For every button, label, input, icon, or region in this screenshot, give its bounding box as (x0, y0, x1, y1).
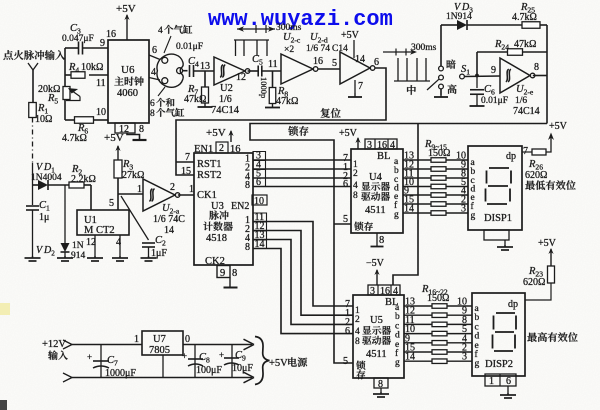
resistor R13 (403, 194, 468, 196)
svg-text:6: 6 (152, 45, 157, 56)
svg-text:+5V: +5V (104, 132, 124, 144)
svg-text:14: 14 (164, 225, 174, 236)
DISP1 bottom tab (484, 230, 509, 240)
wire to U2-a (118, 193, 143, 195)
svg-text:620Ω: 620Ω (523, 277, 545, 288)
wire Q2 digit1 (253, 168, 351, 170)
resistor R20 (404, 342, 472, 344)
svg-text:8: 8 (245, 242, 250, 253)
svg-text:4: 4 (353, 181, 358, 191)
resistor R21 (404, 351, 472, 353)
svg-text:1/6 74C: 1/6 74C (153, 214, 185, 225)
svg-text:+5V: +5V (538, 238, 557, 249)
svg-text:8: 8 (353, 191, 358, 201)
wire right rail (546, 25, 548, 124)
svg-text:5: 5 (109, 198, 114, 209)
svg-text:RST2: RST2 (197, 170, 222, 181)
svg-text:1N: 1N (72, 241, 84, 251)
svg-text:10: 10 (254, 196, 264, 207)
wire Q4 digit1 (253, 186, 351, 188)
svg-text:14: 14 (355, 54, 365, 65)
svg-text:U7: U7 (153, 334, 166, 345)
svg-text:3: 3 (461, 204, 466, 215)
capacitor C2 1uF (121, 196, 149, 240)
counter U3 4518 (194, 153, 253, 265)
svg-text:+5V: +5V (339, 128, 358, 139)
svg-text:620Ω: 620Ω (525, 170, 547, 181)
wire Q1 digit1 (253, 159, 351, 161)
svg-text:+5V: +5V (269, 358, 288, 369)
op-amp U2 1/6 74C14 (214, 57, 245, 85)
svg-text:U5: U5 (370, 315, 383, 326)
resistor R17 (404, 314, 472, 316)
svg-text:5: 5 (343, 214, 348, 225)
svg-text:7: 7 (185, 152, 190, 163)
switch S1 dim/mid/high (440, 25, 442, 66)
svg-text:dp: dp (506, 151, 516, 162)
svg-text:dp: dp (508, 299, 518, 310)
svg-text:4: 4 (355, 327, 360, 337)
svg-text:8: 8 (379, 235, 384, 246)
svg-text:4518: 4518 (206, 233, 227, 244)
paper smudge (0, 303, 10, 315)
svg-text:11: 11 (96, 78, 106, 89)
svg-text:U6: U6 (121, 64, 135, 76)
svg-text:9: 9 (220, 268, 225, 279)
svg-text:27kΩ: 27kΩ (122, 170, 144, 181)
svg-text:5: 5 (332, 58, 337, 69)
resistor R12 (403, 186, 468, 188)
resistor R1 10 ohm (29, 103, 37, 118)
svg-text:CK1: CK1 (197, 190, 217, 201)
resistor R14 (403, 203, 468, 205)
resistor R16 (404, 305, 472, 307)
svg-text:4060: 4060 (117, 88, 138, 99)
svg-text:1: 1 (489, 376, 494, 387)
annotation 300ms right (383, 51, 414, 53)
svg-text:15: 15 (181, 166, 191, 177)
svg-text:4: 4 (151, 67, 156, 78)
display driver U5 4511 (353, 295, 404, 378)
svg-text:9: 9 (100, 38, 105, 49)
svg-text:7805: 7805 (149, 345, 170, 356)
regulator U7 7805 (142, 331, 183, 355)
svg-text:2: 2 (355, 315, 360, 325)
svg-text:+5V: +5V (116, 3, 136, 15)
svg-text:+5V: +5V (549, 121, 568, 132)
svg-text:10μF: 10μF (232, 363, 253, 374)
svg-text:DISP2: DISP2 (485, 359, 513, 370)
wire Q5 digit2 (253, 222, 353, 307)
wire Q3 digit1 (253, 177, 351, 179)
svg-text:8: 8 (355, 337, 360, 347)
resistor R6 4.7k (65, 119, 74, 121)
svg-text:6: 6 (345, 326, 350, 337)
svg-text:1μF: 1μF (151, 248, 167, 259)
display DISP1 (468, 146, 522, 230)
U4 top pin boxes 3 16 4 (365, 139, 397, 149)
svg-text:14: 14 (255, 239, 265, 250)
svg-text:10: 10 (96, 107, 106, 118)
display DISP2 (472, 293, 525, 376)
capacitor C7 1000uF (100, 345, 102, 378)
svg-text:U2: U2 (220, 83, 233, 94)
ground U6 (127, 133, 140, 140)
seven segment digit DISP1 (486, 168, 512, 204)
pulse train 300ms top (234, 39, 269, 41)
svg-text:1μ: 1μ (39, 212, 49, 223)
svg-text:M CT2: M CT2 (84, 225, 115, 236)
bottom rail (63, 373, 72, 382)
reset label (321, 108, 341, 118)
svg-text:10Ω: 10Ω (35, 114, 52, 125)
svg-text:g: g (475, 359, 480, 369)
svg-text:6: 6 (343, 179, 348, 190)
svg-text:3: 3 (462, 352, 467, 363)
most significant digit label (527, 332, 577, 342)
svg-text:+5V: +5V (206, 127, 226, 139)
svg-text:U3: U3 (211, 201, 224, 212)
capacitor C9 10uF (231, 345, 233, 378)
svg-text:74C14: 74C14 (211, 105, 240, 116)
svg-text:−5V: −5V (366, 258, 385, 269)
svg-text:4: 4 (158, 26, 163, 36)
svg-text:1: 1 (137, 184, 142, 195)
svg-text:8: 8 (245, 180, 250, 191)
svg-text:47kΩ: 47kΩ (276, 96, 298, 107)
svg-text:1N4004: 1N4004 (31, 173, 62, 183)
U5 top pin boxes 3 16 4 (368, 285, 400, 295)
svg-text:DISP1: DISP1 (484, 213, 512, 224)
svg-text:6: 6 (374, 57, 379, 68)
display driver U4 4511 (351, 149, 403, 233)
svg-text:8: 8 (534, 62, 539, 73)
svg-text:14: 14 (404, 204, 414, 215)
least significant digit label (525, 180, 575, 190)
ignition pulse input label (3, 50, 65, 60)
label 6 and 8 cylinders (158, 87, 165, 96)
resistor R19 (404, 333, 472, 335)
svg-text:74C14: 74C14 (513, 106, 540, 117)
DISP2 bottom tab (485, 374, 516, 386)
svg-text:150Ω: 150Ω (427, 293, 449, 304)
U5 pin8 box (374, 378, 388, 388)
CK2 pin box 9 8 (217, 266, 230, 278)
svg-text:0: 0 (185, 334, 190, 345)
svg-text:RST1: RST1 (197, 159, 222, 170)
capacitor C5 1000p (248, 70, 258, 72)
svg-text:8: 8 (232, 268, 237, 279)
resistor R9 (403, 159, 468, 161)
svg-text:4.7kΩ: 4.7kΩ (62, 133, 87, 144)
latch label (288, 126, 308, 136)
svg-text:EN2: EN2 (231, 201, 249, 212)
svg-text:1/6: 1/6 (219, 94, 232, 105)
svg-text:1: 1 (134, 334, 139, 345)
capacitor C1 1u (32, 185, 34, 205)
pulse train mid (394, 80, 430, 82)
ground CK2 (229, 278, 231, 288)
input arrow top (63, 340, 72, 349)
svg-text:6: 6 (506, 376, 511, 387)
svg-text:11: 11 (268, 59, 278, 70)
svg-text:47kΩ: 47kΩ (184, 94, 206, 105)
resistor R7 47k (204, 71, 206, 87)
svg-text:6: 6 (150, 99, 155, 109)
resistor R10 (403, 168, 468, 170)
EN2 pin box (252, 195, 267, 205)
svg-text:+: + (87, 352, 92, 362)
svg-text:U4: U4 (369, 172, 383, 183)
resistor R11 (403, 177, 468, 179)
resistor R23 620 (548, 266, 555, 283)
input terminal (28, 63, 38, 70)
op-amp U2-e (500, 58, 530, 93)
U7 ground pin (162, 355, 164, 378)
measure arrow 300ms (237, 28, 275, 30)
wire dashed to VD1 (32, 118, 34, 164)
op-amp U6 main clock 4060 (108, 40, 149, 123)
svg-text:2: 2 (170, 182, 175, 193)
svg-text:1/6 74: 1/6 74 (306, 44, 330, 54)
svg-text:9: 9 (491, 65, 496, 76)
svg-text:2: 2 (353, 169, 358, 179)
svg-text:4511: 4511 (365, 205, 386, 216)
brace (255, 337, 270, 385)
svg-text:8: 8 (139, 124, 144, 135)
wire Q8 digit2 (253, 249, 353, 334)
svg-text:1N914: 1N914 (446, 12, 472, 22)
svg-text:+5V: +5V (341, 30, 360, 41)
svg-text:+12V: +12V (42, 339, 66, 350)
svg-text:8: 8 (150, 109, 155, 119)
seven segment digit DISP2 (493, 313, 517, 351)
wire rail to U5 pin4 (393, 124, 418, 286)
svg-text:16: 16 (106, 29, 116, 40)
svg-text:14: 14 (405, 352, 415, 363)
svg-text:1000μF: 1000μF (105, 368, 136, 379)
svg-text:g: g (471, 211, 476, 221)
wire Q6 digit2 (253, 231, 353, 316)
svg-text:914: 914 (71, 251, 86, 261)
svg-text:0.01μF: 0.01μF (176, 42, 203, 52)
resistor R15 (403, 212, 468, 214)
svg-text:+: + (182, 351, 187, 361)
svg-text:6: 6 (256, 177, 261, 188)
resistor R22 (404, 360, 472, 362)
selector switch (149, 55, 160, 60)
wire Q7 digit2 (253, 240, 353, 325)
svg-text:100μF: 100μF (196, 365, 222, 376)
wire left rail (64, 48, 66, 120)
latch wire long (250, 124, 547, 364)
svg-text:300ms: 300ms (411, 43, 437, 53)
capacitor C8 100uF (194, 345, 196, 378)
svg-text:13: 13 (200, 61, 210, 72)
svg-text:BL: BL (377, 151, 390, 162)
optocoupler U1 MCT2 (77, 210, 129, 235)
resistor R18 (404, 323, 472, 325)
svg-text:4511: 4511 (366, 349, 387, 360)
U6 pin 12 8 box (115, 123, 135, 133)
capacitor C6 0.01uF (476, 76, 478, 88)
svg-text:g: g (394, 210, 399, 220)
diode VD2 1N914 (64, 185, 66, 243)
reset wire from U2-d (176, 68, 386, 175)
svg-text:×2: ×2 (284, 45, 294, 55)
svg-text:1000p: 1000p (259, 77, 269, 98)
svg-text:1/6: 1/6 (515, 96, 527, 106)
resistor R3 27k (114, 160, 122, 178)
svg-text:12: 12 (236, 72, 246, 83)
svg-text:16: 16 (313, 56, 323, 67)
svg-text:5: 5 (343, 356, 348, 367)
svg-text:0.01μF: 0.01μF (481, 96, 508, 106)
svg-text:g: g (395, 358, 400, 368)
svg-text:7: 7 (358, 81, 363, 92)
op-amp U2-a (143, 179, 175, 211)
svg-text:+: + (219, 350, 224, 360)
